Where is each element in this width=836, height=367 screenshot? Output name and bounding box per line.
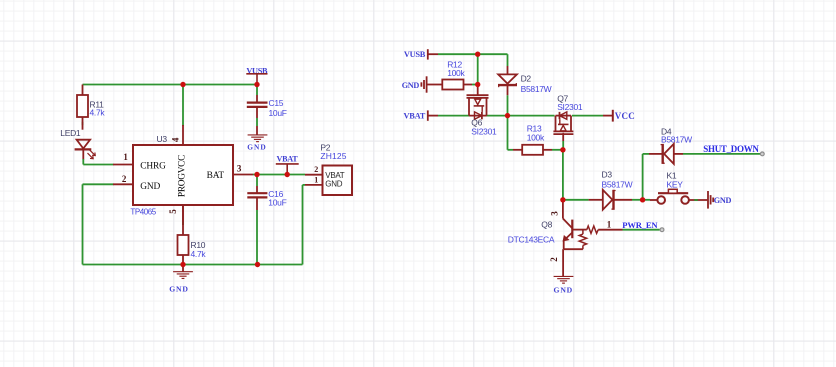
- push button K1 KEY: [643, 170, 708, 204]
- port endpoint PWR_EN: [660, 228, 664, 232]
- diode D3 B5817W: [563, 169, 643, 210]
- svg-text:SI2301: SI2301: [557, 102, 583, 112]
- transistor Q6 SI2301: [467, 85, 498, 137]
- svg-text:VUSB: VUSB: [404, 50, 426, 59]
- resistor R13: [513, 123, 563, 154]
- node junction Q8 collector / D3: [560, 197, 565, 202]
- svg-text:GND: GND: [247, 143, 266, 152]
- svg-text:1: 1: [607, 219, 612, 229]
- svg-text:100k: 100k: [527, 133, 545, 143]
- svg-text:LED1: LED1: [60, 128, 81, 138]
- wire LED1 to U3 pin 1: [83, 159, 113, 165]
- svg-text:B5817W: B5817W: [521, 84, 552, 94]
- wire U3 pin 3 / net VBAT to P2: [253, 174, 305, 176]
- svg-text:GND: GND: [140, 182, 160, 192]
- wire U3 pin 2 to ground rail: [83, 184, 114, 264]
- svg-text:GND: GND: [325, 180, 342, 189]
- svg-text:KEY: KEY: [667, 180, 684, 190]
- svg-text:3: 3: [549, 211, 559, 216]
- node junction VUSB / R12 gate branch: [475, 52, 480, 57]
- svg-text:B5817W: B5817W: [661, 135, 692, 145]
- node junction at R11 top rail / U3 pin4: [180, 82, 185, 87]
- svg-text:D2: D2: [521, 73, 532, 83]
- net flag VCC: [603, 110, 635, 122]
- svg-text:100k: 100k: [447, 68, 465, 78]
- net flag VUSB (right): [404, 49, 438, 59]
- node junction C16 / ground rail: [255, 262, 260, 267]
- diode D2 B5817W: [498, 66, 552, 116]
- node junction R13 / Q7 gate: [560, 147, 565, 152]
- svg-text:2: 2: [549, 257, 559, 262]
- net flag VBAT (right): [404, 110, 438, 120]
- net flag VBAT (left): [276, 155, 299, 175]
- wire node up to D4: [643, 154, 649, 200]
- wire net VUSB to D2: [438, 54, 508, 66]
- svg-text:GND: GND: [554, 286, 573, 295]
- svg-text:4.7k: 4.7k: [90, 108, 106, 118]
- node junction D3 / K1 / D4: [640, 197, 645, 202]
- node junction R12 / Q6 gate: [475, 82, 480, 87]
- resistor R10: [178, 205, 207, 265]
- svg-text:SI2301: SI2301: [471, 126, 497, 136]
- svg-text:ZH125: ZH125: [320, 151, 346, 161]
- node junction BAT / C16: [254, 172, 259, 177]
- svg-text:4: 4: [171, 137, 181, 142]
- svg-text:CHRG: CHRG: [140, 162, 166, 172]
- svg-text:BAT: BAT: [207, 171, 225, 181]
- svg-text:GND: GND: [402, 81, 420, 90]
- capacitor C15: [247, 85, 287, 135]
- net label PWR_EN: [622, 220, 658, 230]
- node junction R10 / ground rail: [180, 262, 185, 267]
- net flag GND (right of K1): [708, 191, 731, 209]
- svg-text:VBAT: VBAT: [404, 111, 426, 120]
- svg-text:1: 1: [314, 175, 318, 184]
- svg-text:DTC143ECA: DTC143ECA: [508, 234, 555, 244]
- svg-text:1: 1: [123, 152, 128, 162]
- port endpoint SHUT_DOWN: [760, 152, 764, 156]
- wire ground rail bottom: [83, 264, 258, 266]
- svg-text:GND: GND: [714, 196, 732, 205]
- svg-text:2: 2: [314, 165, 318, 174]
- wire Q7 gate to R13: [562, 141, 564, 150]
- svg-text:C15: C15: [269, 98, 284, 108]
- svg-text:Q8: Q8: [541, 220, 552, 230]
- IC U3 TP4065: [113, 125, 253, 225]
- node junction at C15 / VUSB stem: [254, 82, 259, 87]
- ground GND under C15: [247, 135, 267, 152]
- svg-text:PWR_EN: PWR_EN: [622, 220, 658, 230]
- transistor Q8 DTC143ECA: [508, 200, 623, 276]
- node junction D2 / VBAT rail: [505, 113, 510, 118]
- resistor R11: [77, 85, 105, 130]
- wire net VBAT rail: [438, 115, 603, 117]
- ground GND under Q8: [554, 276, 574, 294]
- svg-text:10uF: 10uF: [268, 198, 286, 208]
- wire net VUSB horizontal top-left: [83, 84, 258, 86]
- svg-text:VBAT: VBAT: [277, 155, 299, 164]
- svg-text:SHUT_DOWN: SHUT_DOWN: [703, 144, 759, 154]
- svg-text:D3: D3: [602, 169, 613, 179]
- svg-text:TP4065: TP4065: [130, 208, 156, 217]
- svg-text:2: 2: [122, 174, 127, 184]
- connector P2 ZH125: [305, 142, 352, 195]
- svg-text:10uF: 10uF: [269, 108, 287, 118]
- svg-text:VCC: VCC: [615, 111, 635, 121]
- capacitor C16: [247, 175, 286, 265]
- wire stub speck at R10 top: [182, 222, 184, 225]
- LED LED1: [60, 128, 95, 159]
- diode D4 B5817W: [649, 127, 692, 164]
- wire P2 pin 1 to ground rail: [258, 185, 306, 265]
- svg-text:3: 3: [237, 163, 242, 173]
- wire vertical to U3 pin 4: [182, 85, 184, 127]
- net flag GND (mid, at R12): [402, 76, 443, 92]
- net label SHUT_DOWN: [703, 144, 759, 154]
- wire net SHUT_DOWN: [683, 153, 762, 155]
- wire R13 branch from VBAT rail: [508, 116, 514, 150]
- transistor Q7 SI2301: [553, 93, 583, 141]
- svg-text:U3: U3: [157, 134, 168, 144]
- wire stub speck at R11 bottom: [82, 122, 84, 125]
- node junction VBAT stem: [285, 172, 290, 177]
- wire gate branch down to R12: [477, 54, 479, 84]
- wire gate node down to Q8 collector node: [562, 150, 564, 200]
- resistor R12: [442, 59, 477, 89]
- svg-text:5: 5: [168, 209, 178, 214]
- svg-text:B5817W: B5817W: [602, 180, 633, 190]
- wire net PWR_EN: [623, 229, 660, 231]
- svg-text:GND: GND: [169, 285, 188, 294]
- ground GND bottom-left: [169, 265, 193, 294]
- wire stub speck right of K1: [694, 199, 698, 201]
- svg-text:PROGVCC: PROGVCC: [178, 155, 188, 197]
- net flag VUSB (left): [246, 66, 268, 84]
- svg-text:4.7k: 4.7k: [191, 249, 207, 259]
